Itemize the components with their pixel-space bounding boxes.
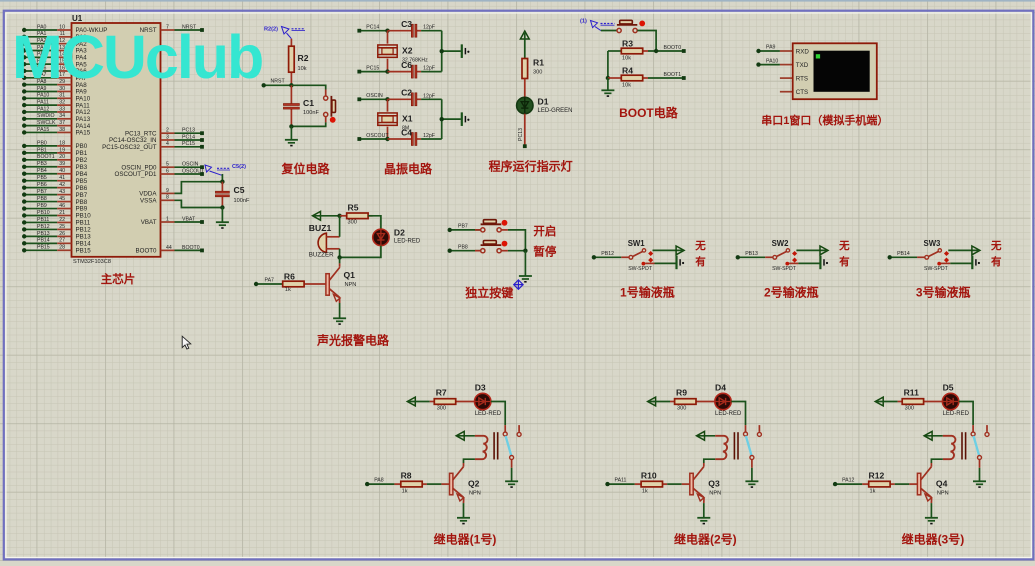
button BOOT0 xyxy=(617,20,645,32)
pin PC13_RTC (2) net PC13 xyxy=(125,128,204,138)
svg-text:SW-SPDT: SW-SPDT xyxy=(772,266,797,272)
wire R3 left rail xyxy=(608,50,621,52)
svg-text:12pF: 12pF xyxy=(423,93,435,99)
relay pivot 3 xyxy=(978,456,982,468)
ground SW2 xyxy=(820,256,828,270)
svg-text:继电器(2号): 继电器(2号) xyxy=(674,531,737,546)
probe R2(2) xyxy=(264,27,305,39)
label 继电器(2号) xyxy=(674,531,737,546)
label 复位电路 xyxy=(280,161,330,176)
wire NRST to button xyxy=(291,85,325,89)
pin NRST (7) net NRST xyxy=(140,24,204,34)
resistor R2 10k xyxy=(289,39,309,86)
svg-text:PB14: PB14 xyxy=(37,238,50,244)
pin PB8 (45) net PB8 xyxy=(22,196,88,206)
resistor R9 300 xyxy=(649,387,715,411)
svg-text:300: 300 xyxy=(905,406,914,412)
svg-text:MCUclub: MCUclub xyxy=(12,23,262,91)
wire VSSA to C5 bottom xyxy=(175,200,223,207)
wire C5 top node xyxy=(220,174,224,184)
svg-text:STM32F103C8: STM32F103C8 xyxy=(73,259,111,265)
button RESET (vertical) xyxy=(324,90,336,123)
resistor R5 300 xyxy=(340,203,373,226)
wire OSCIN to C2 xyxy=(388,98,412,100)
terminal PB13 xyxy=(736,251,766,259)
label BOOT电路 xyxy=(619,105,679,120)
resistor R11 300 xyxy=(877,387,943,411)
svg-text:1: 1 xyxy=(166,216,169,222)
wire SW1 top throw to power xyxy=(653,249,683,251)
terminal BOOT0 xyxy=(664,45,686,53)
svg-text:37: 37 xyxy=(59,120,65,126)
svg-text:PC14: PC14 xyxy=(182,134,195,140)
pin PA9 (30) net PA9 xyxy=(22,86,87,96)
svg-text:R4: R4 xyxy=(622,66,633,76)
label 有 1 xyxy=(695,255,706,268)
terminal PB12 xyxy=(592,251,622,259)
svg-text:8: 8 xyxy=(166,195,169,201)
wire rail to ground xyxy=(607,78,609,90)
capacitor C5 100nF xyxy=(215,182,250,208)
svg-text:NPN: NPN xyxy=(937,491,949,497)
svg-text:VBAT: VBAT xyxy=(182,216,196,222)
resistor R1 300 xyxy=(522,33,544,79)
svg-text:PB0: PB0 xyxy=(76,143,88,150)
svg-text:10k: 10k xyxy=(622,56,631,62)
relay contacts 2 xyxy=(744,425,762,436)
relay lever 2 xyxy=(746,436,752,456)
svg-text:串口1窗口（模拟手机端）: 串口1窗口（模拟手机端） xyxy=(761,113,888,127)
svg-text:46: 46 xyxy=(59,203,65,209)
label 继电器(3号) xyxy=(902,531,965,546)
power arrow indicator xyxy=(520,31,529,39)
pin PB9 (46) net PB9 xyxy=(22,203,88,213)
svg-text:26: 26 xyxy=(59,231,65,237)
svg-text:2号输液瓶: 2号输液瓶 xyxy=(764,285,819,300)
svg-text:Q2: Q2 xyxy=(468,479,480,489)
ground crystal xyxy=(462,44,470,58)
svg-text:继电器(1号): 继电器(1号) xyxy=(434,531,497,546)
svg-text:PB12: PB12 xyxy=(601,251,614,257)
wire button to C1 bottom xyxy=(291,122,325,126)
pin VSSA (8) xyxy=(140,195,175,205)
pin PB1 (19) net PB1 xyxy=(22,147,88,157)
svg-text:R1: R1 xyxy=(533,58,544,68)
svg-text:继电器(3号): 继电器(3号) xyxy=(902,531,965,546)
svg-text:100nF: 100nF xyxy=(303,110,319,116)
svg-text:PB13: PB13 xyxy=(76,234,92,241)
svg-text:D4: D4 xyxy=(715,383,726,393)
svg-text:PB3: PB3 xyxy=(76,164,88,171)
wire buzzer bottom to node xyxy=(337,249,341,260)
pin PA5 (15) net PA5 xyxy=(22,59,87,69)
label 无 2 xyxy=(838,240,850,252)
svg-text:34: 34 xyxy=(59,113,65,119)
wire coil to Q3 collector xyxy=(704,459,715,467)
svg-text:C4: C4 xyxy=(401,127,412,137)
svg-text:VSSA: VSSA xyxy=(140,198,157,205)
switch SW3 SW-SPDT xyxy=(917,239,950,272)
svg-text:BOOT1: BOOT1 xyxy=(664,72,682,78)
svg-text:12pF: 12pF xyxy=(423,133,435,139)
svg-text:PB9: PB9 xyxy=(37,203,47,209)
junction C1 bottom xyxy=(289,124,293,128)
wire node to buzzer top xyxy=(339,216,341,237)
label 晶振电路 xyxy=(384,161,433,176)
svg-text:无: 无 xyxy=(694,240,706,252)
svg-text:PA12: PA12 xyxy=(842,477,854,483)
relay lever 1 xyxy=(506,436,512,456)
power arrow R7 xyxy=(407,397,415,406)
svg-text:PB4: PB4 xyxy=(37,168,47,174)
pin PA11 (32) net PA11 xyxy=(22,100,90,110)
svg-text:PC13: PC13 xyxy=(518,128,524,141)
pin PB0 (18) net PB0 xyxy=(22,140,88,150)
wire D4 to relay contact xyxy=(731,402,745,426)
svg-text:12pF: 12pF xyxy=(423,25,435,31)
svg-text:C1: C1 xyxy=(303,98,314,108)
ground relay 3 xyxy=(973,481,986,487)
svg-text:PB7: PB7 xyxy=(458,224,468,230)
svg-text:PB1: PB1 xyxy=(37,147,47,153)
svg-text:无: 无 xyxy=(838,240,850,252)
svg-text:18: 18 xyxy=(59,140,65,146)
pin VDDA (9) xyxy=(139,188,174,198)
svg-text:LED-RED: LED-RED xyxy=(715,411,742,417)
svg-text:42: 42 xyxy=(59,182,65,188)
ground reset xyxy=(285,140,298,146)
svg-text:PA7: PA7 xyxy=(265,278,275,284)
label 串口1窗口（模拟手机端） xyxy=(761,113,888,127)
pin PA3 (13) net PA3 xyxy=(22,45,87,55)
svg-text:PC15: PC15 xyxy=(182,141,195,147)
svg-text:12pF: 12pF xyxy=(423,66,435,72)
svg-text:PA11: PA11 xyxy=(37,100,49,106)
svg-text:39: 39 xyxy=(59,161,65,167)
svg-text:Q4: Q4 xyxy=(936,479,948,489)
resistor R4 10k xyxy=(608,66,648,89)
svg-text:Q3: Q3 xyxy=(708,479,720,489)
probe C5(2) xyxy=(205,164,246,175)
ground C5 xyxy=(216,222,229,228)
svg-text:OSCOUT_PD1: OSCOUT_PD1 xyxy=(115,171,158,178)
power arrow R11 xyxy=(875,397,883,406)
LED-RED D2 xyxy=(373,228,421,246)
terminal PC15 xyxy=(357,65,387,73)
svg-text:Q1: Q1 xyxy=(344,270,356,280)
ground Q3 xyxy=(697,518,710,524)
ground Q4 xyxy=(925,518,938,524)
svg-text:PB7: PB7 xyxy=(37,189,47,195)
ground crystal xyxy=(462,112,470,126)
wire R1 to D1 xyxy=(524,79,526,98)
terminal PA12 xyxy=(833,477,862,486)
svg-text:NRST: NRST xyxy=(271,79,286,85)
label 程序运行指示灯 xyxy=(489,159,573,174)
svg-text:9: 9 xyxy=(166,188,169,194)
label 2号输液瓶 xyxy=(764,285,819,300)
svg-text:PA9: PA9 xyxy=(766,45,776,51)
switch SW1 SW-SPDT xyxy=(621,239,654,272)
pin PA15 (38) net PA15 xyxy=(22,127,91,137)
transistor Q4 NPN xyxy=(917,467,948,501)
pin PA10 (31) net PA10 xyxy=(22,93,91,103)
svg-text:LED-RED: LED-RED xyxy=(943,411,970,417)
svg-text:PA15: PA15 xyxy=(37,127,49,133)
ground relay 2 xyxy=(745,481,758,487)
svg-text:开启: 开启 xyxy=(533,224,556,238)
wire SW3 top throw to power xyxy=(948,249,978,251)
svg-text:PA12: PA12 xyxy=(37,106,49,112)
label 3号输液瓶 xyxy=(916,285,971,300)
label 继电器(1号) xyxy=(434,531,497,546)
resistor R6 1k xyxy=(283,272,326,293)
resistor R8 1k xyxy=(394,471,427,495)
pin PB13 (26) net PB13 xyxy=(22,231,91,241)
watermark MCUclub xyxy=(12,23,262,91)
wire coil to Q2 collector xyxy=(464,459,475,467)
svg-text:PC13: PC13 xyxy=(182,128,195,134)
junction PC14/X2 xyxy=(385,29,389,33)
capacitor C1 100nF xyxy=(283,85,319,126)
svg-text:SW2: SW2 xyxy=(772,239,790,248)
wire pivot to ground 3 xyxy=(979,468,981,482)
svg-text:U1: U1 xyxy=(72,14,83,23)
terminal PB7 xyxy=(448,224,481,233)
svg-text:20: 20 xyxy=(59,154,65,160)
svg-text:R5: R5 xyxy=(348,203,359,213)
label 有 2 xyxy=(839,255,850,268)
pin PA8 (29) net PA8 xyxy=(22,79,87,89)
pin OSCOUT_PD1 (6) net OSCOUT xyxy=(115,168,205,178)
svg-text:3号输液瓶: 3号输液瓶 xyxy=(916,285,971,300)
wire arrow to R5 node xyxy=(314,214,342,218)
svg-text:C5: C5 xyxy=(234,185,245,195)
svg-text:1k: 1k xyxy=(285,287,291,293)
svg-text:R8: R8 xyxy=(401,471,412,481)
svg-text:PB14: PB14 xyxy=(897,251,910,257)
svg-text:R6: R6 xyxy=(284,272,295,282)
wire R4 to BOOT1 xyxy=(648,77,684,79)
svg-text:10k: 10k xyxy=(622,83,631,89)
wire R10 to Q3 xyxy=(667,483,690,485)
svg-text:SW-SPDT: SW-SPDT xyxy=(924,266,949,272)
svg-text:(1): (1) xyxy=(580,19,587,25)
svg-text:R10: R10 xyxy=(641,471,657,481)
svg-text:PC14: PC14 xyxy=(366,25,379,31)
svg-text:PC15: PC15 xyxy=(366,65,379,71)
crystal X1 8M xyxy=(378,99,413,139)
wire common to ground xyxy=(524,251,526,276)
pin PB11 (22) net PB11 xyxy=(22,217,91,227)
svg-text:VBAT: VBAT xyxy=(141,219,157,226)
svg-text:PA11: PA11 xyxy=(615,477,627,483)
pin PA13 (34) net SWDIO xyxy=(22,113,91,123)
wire Q3 emitter to ground xyxy=(703,498,705,518)
wire probe to BOOT button xyxy=(601,30,617,32)
svg-text:19: 19 xyxy=(59,147,65,153)
probe (1) xyxy=(580,19,615,31)
svg-text:44: 44 xyxy=(166,245,172,251)
svg-text:D2: D2 xyxy=(394,228,405,238)
svg-text:LED-GREEN: LED-GREEN xyxy=(538,108,573,114)
svg-text:45: 45 xyxy=(59,196,65,202)
svg-text:PB6: PB6 xyxy=(37,182,47,188)
svg-text:PB13: PB13 xyxy=(37,231,50,237)
svg-text:4: 4 xyxy=(166,141,169,147)
svg-text:PB8: PB8 xyxy=(37,196,47,202)
svg-text:SW-SPDT: SW-SPDT xyxy=(628,266,653,272)
svg-text:33: 33 xyxy=(59,106,65,112)
svg-text:D3: D3 xyxy=(475,383,486,393)
capacitor C3 12pF xyxy=(401,19,442,37)
power arrow SW2 xyxy=(820,246,828,255)
ground BOOT xyxy=(601,90,614,96)
svg-text:100nF: 100nF xyxy=(234,198,250,204)
svg-text:LED-RED: LED-RED xyxy=(475,411,502,417)
LED-RED D5 xyxy=(942,383,969,417)
label 主芯片 xyxy=(101,272,136,286)
svg-text:PA10: PA10 xyxy=(766,58,778,64)
svg-text:PB2: PB2 xyxy=(76,157,88,164)
ground keys xyxy=(519,276,532,282)
label 独立按键 xyxy=(464,285,513,300)
ground alarm xyxy=(333,318,346,324)
pin PB10 (21) net PB10 xyxy=(22,210,91,220)
capacitor C4 12pF xyxy=(401,127,442,145)
terminal OSCOUT xyxy=(357,133,389,141)
buzzer BUZ1 xyxy=(309,223,340,259)
wire OSCOUT to C4 xyxy=(388,138,412,140)
wire D3 to relay contact xyxy=(491,402,505,426)
label 声光报警电路 xyxy=(316,333,390,348)
svg-text:PB12: PB12 xyxy=(37,224,50,230)
svg-text:有: 有 xyxy=(839,255,850,268)
wire Q4 emitter to ground xyxy=(930,498,932,518)
wire caps to ground rail xyxy=(440,99,461,139)
svg-text:LED-RED: LED-RED xyxy=(394,239,421,245)
wire PC15 to C6 xyxy=(388,71,412,73)
pin PA1 (11) net PA1 xyxy=(22,31,87,41)
pin PC15-OSC32_OUT (4) net PC15 xyxy=(102,141,204,151)
wire R3 to R4 rail xyxy=(607,51,609,78)
wire SW3 bottom throw to ground xyxy=(950,262,972,264)
relay contacts 1 xyxy=(503,425,521,436)
svg-text:300: 300 xyxy=(348,220,357,226)
pin PA7 (17) net PA7 xyxy=(22,72,87,82)
transistor Q2 NPN xyxy=(450,467,481,501)
svg-text:程序运行指示灯: 程序运行指示灯 xyxy=(489,159,573,174)
label 1号输液瓶 xyxy=(620,285,675,300)
svg-text:R11: R11 xyxy=(904,387,920,397)
svg-text:C5(2): C5(2) xyxy=(232,164,246,170)
pin PA4 (14) net PA4 xyxy=(22,52,87,62)
label 无 1 xyxy=(694,240,706,252)
resistor R12 1k xyxy=(862,471,895,495)
junction R3/BOOT0 xyxy=(648,49,684,53)
relay contacts 3 xyxy=(971,425,989,436)
power arrow SW3 xyxy=(972,246,980,255)
pin OSCIN_PD0 (5) net OSCIN xyxy=(121,162,203,172)
svg-text:31: 31 xyxy=(59,93,65,99)
svg-text:R2: R2 xyxy=(298,53,309,63)
power arrow relay coil 3 xyxy=(924,431,932,440)
pin PA14 (37) net SWCLK xyxy=(22,120,91,130)
svg-text:PA10: PA10 xyxy=(37,93,49,99)
wire VDDA to C5 top xyxy=(175,182,223,194)
LED-RED D3 xyxy=(475,383,502,417)
relay coil 1 xyxy=(457,432,498,459)
svg-text:D1: D1 xyxy=(538,97,549,107)
svg-text:PB6: PB6 xyxy=(76,185,88,192)
svg-text:PB3: PB3 xyxy=(37,161,47,167)
power arrow relay coil 1 xyxy=(456,431,464,440)
junction OSCIN/X1 xyxy=(385,97,389,101)
transistor Q1 NPN xyxy=(326,263,356,301)
wire caps to ground rail xyxy=(440,31,461,72)
svg-text:10k: 10k xyxy=(298,66,307,72)
pin PB5 (41) net PB5 xyxy=(22,175,88,185)
transistor Q3 NPN xyxy=(690,467,721,501)
virtual terminal 串口1窗口 xyxy=(780,43,877,99)
svg-text:3: 3 xyxy=(166,134,169,140)
power arrow R9 xyxy=(648,397,656,406)
wire R5 to D2 xyxy=(368,216,381,229)
svg-text:BOOT0: BOOT0 xyxy=(664,45,682,51)
wire to ground xyxy=(290,126,292,139)
resistor R7 300 xyxy=(409,387,475,411)
svg-text:R2(2): R2(2) xyxy=(264,27,278,33)
svg-text:28: 28 xyxy=(59,245,65,251)
svg-text:PB15: PB15 xyxy=(37,245,50,251)
pin PA2 (12) net PA2 xyxy=(22,38,87,48)
wire C5 bottom node to ground xyxy=(220,205,224,222)
svg-text:PB11: PB11 xyxy=(76,220,91,227)
svg-text:PB14: PB14 xyxy=(76,241,92,248)
wire D2 to bottom node xyxy=(340,246,381,258)
pin PB7 (43) net PB7 xyxy=(22,189,88,199)
svg-text:R12: R12 xyxy=(869,471,885,481)
button 开启 xyxy=(475,220,508,232)
svg-text:6: 6 xyxy=(166,168,169,174)
wire Q1 emitter to ground xyxy=(339,298,341,319)
ground relay 1 xyxy=(505,481,518,487)
svg-text:RTS: RTS xyxy=(796,75,808,82)
svg-text:22: 22 xyxy=(59,217,65,223)
svg-text:PB13: PB13 xyxy=(745,251,758,257)
svg-text:PB1: PB1 xyxy=(76,150,88,157)
label 有 3 xyxy=(991,255,1002,268)
relay pivot 1 xyxy=(510,456,514,468)
svg-text:有: 有 xyxy=(695,255,706,268)
svg-text:SWCLK: SWCLK xyxy=(37,120,56,126)
svg-text:独立按键: 独立按键 xyxy=(464,285,513,300)
svg-text:SW1: SW1 xyxy=(628,239,646,248)
wire pivot to ground 1 xyxy=(511,468,513,482)
svg-text:PB5: PB5 xyxy=(37,175,47,181)
svg-text:R9: R9 xyxy=(676,387,687,397)
pin PB2 (20) net BOOT1 xyxy=(22,154,88,164)
svg-text:OSCOUT: OSCOUT xyxy=(182,168,205,174)
svg-text:NPN: NPN xyxy=(469,491,481,497)
capacitor C2 12pF xyxy=(401,88,442,106)
power arrow SW1 xyxy=(676,246,684,255)
svg-text:NPN: NPN xyxy=(709,491,721,497)
junction OSCOUT/X1 xyxy=(385,137,389,141)
svg-text:PB5: PB5 xyxy=(76,178,88,185)
svg-text:TXD: TXD xyxy=(796,62,809,69)
wire D5 to relay contact xyxy=(959,402,973,426)
